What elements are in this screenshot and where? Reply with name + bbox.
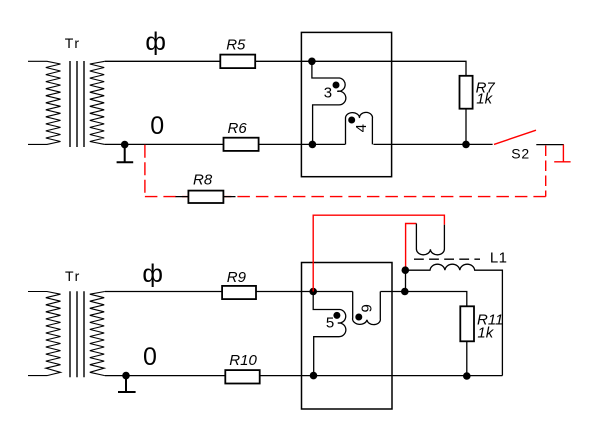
resistor R9 bbox=[222, 286, 256, 299]
red wire: ballast left to node bbox=[406, 224, 417, 271]
svg-text:0: 0 bbox=[143, 343, 157, 371]
junction: R11 bottom node bbox=[463, 372, 471, 380]
resistor R11 bbox=[460, 306, 474, 341]
wire: S2 fixed side bbox=[536, 144, 564, 146]
junction: bottom neutral at ground bbox=[122, 372, 130, 380]
svg-text:ф: ф bbox=[145, 28, 166, 56]
resistor R8 bbox=[188, 191, 223, 203]
switch S2 blade (red) bbox=[494, 130, 536, 144]
transformer Tr2 primary winding bbox=[28, 292, 61, 376]
resistor R5 bbox=[220, 55, 255, 69]
junction: pin3 top node bbox=[308, 58, 316, 66]
terminal dot pin 5 bbox=[333, 312, 340, 319]
svg-text:R9: R9 bbox=[227, 269, 247, 286]
red wire: lamp to ballast top bbox=[313, 215, 444, 291]
wire: top neutral wire right part bbox=[373, 143, 492, 145]
junction: node1 (L1 left) bbox=[402, 266, 410, 274]
junction: node2 (phase wire) bbox=[401, 288, 409, 296]
wire: bottom phase wire right part bbox=[380, 292, 466, 377]
svg-text:5: 5 bbox=[326, 315, 334, 332]
svg-text:3: 3 bbox=[324, 84, 332, 101]
wire: bottom neutral wire bbox=[105, 375, 503, 377]
inductor L1 bbox=[406, 264, 503, 375]
ground (top circuit) bbox=[117, 145, 134, 163]
electrode pin 6 bbox=[353, 292, 381, 325]
terminal dot pin 4 bbox=[348, 117, 355, 124]
svg-text:4: 4 bbox=[353, 124, 370, 132]
svg-text:Tr: Tr bbox=[65, 268, 81, 284]
transformer Tr1 primary winding bbox=[28, 61, 61, 144]
red dashed link: vertical from neutral node bbox=[144, 145, 146, 197]
lamp box V1 (top) bbox=[301, 32, 391, 176]
svg-text:S2: S2 bbox=[511, 146, 530, 162]
transformer Tr2 secondary winding bbox=[90, 292, 105, 376]
svg-text:L1: L1 bbox=[490, 250, 508, 267]
terminal dot pin 6 bbox=[355, 314, 362, 321]
transformer Tr1 secondary winding bbox=[90, 61, 105, 144]
svg-text:1k: 1k bbox=[477, 325, 494, 342]
ballast primary winding (vertical U loops) bbox=[416, 224, 444, 255]
red dashed link: horizontal run bbox=[145, 196, 546, 198]
svg-text:R5: R5 bbox=[226, 37, 246, 54]
svg-text:0: 0 bbox=[150, 112, 164, 140]
svg-text:ф: ф bbox=[142, 260, 163, 288]
resistor R6 bbox=[224, 138, 259, 151]
ballast core (dashed) bbox=[414, 258, 480, 260]
svg-text:R10: R10 bbox=[229, 352, 257, 369]
svg-text:1k: 1k bbox=[476, 91, 493, 108]
S2 terminal drop (red) bbox=[554, 145, 570, 162]
junction: pin5 top node bbox=[309, 288, 317, 296]
wire: bottom phase wire left part bbox=[105, 291, 353, 293]
svg-text:6: 6 bbox=[357, 304, 374, 312]
svg-text:R8: R8 bbox=[193, 171, 213, 188]
junction: pin3 bottom node bbox=[309, 141, 317, 149]
wire: top neutral wire left part bbox=[105, 143, 345, 145]
electrode pin 5 bbox=[313, 292, 346, 376]
resistor R7 bbox=[460, 76, 473, 109]
electrode pin 3 bbox=[312, 61, 346, 144]
lamp box V2 (bottom) bbox=[302, 263, 393, 410]
wire: node1 to node2 bbox=[405, 270, 407, 291]
ground (bottom circuit) bbox=[118, 376, 136, 392]
transformer Tr1 core bbox=[70, 61, 84, 147]
wire: top phase wire bbox=[105, 61, 466, 144]
terminal dot pin 3 bbox=[333, 82, 340, 89]
junction: top neutral at ground bbox=[121, 141, 129, 149]
svg-text:Tr: Tr bbox=[65, 35, 81, 51]
junction: pin5 bottom node bbox=[310, 372, 318, 380]
transformer Tr2 core bbox=[70, 291, 84, 377]
svg-text:R6: R6 bbox=[228, 120, 248, 137]
red dashed link: vertical to S2 bbox=[545, 146, 547, 197]
resistor R10 bbox=[225, 370, 259, 383]
wire: R8 leads bbox=[176, 196, 236, 198]
junction: R7 bottom node bbox=[462, 141, 470, 149]
electrode pin 4 bbox=[345, 112, 372, 144]
